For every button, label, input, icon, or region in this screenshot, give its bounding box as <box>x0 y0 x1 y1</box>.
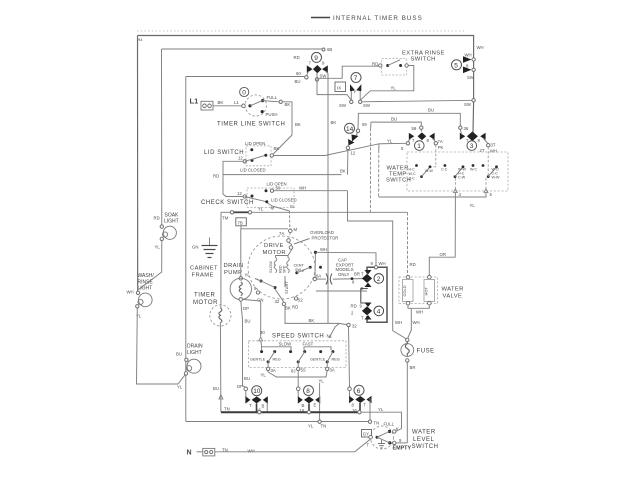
svg-text:HOT: HOT <box>424 287 429 296</box>
wire: outer frame top (WH buss) <box>138 36 474 60</box>
wire: left column down from wash light and across bottom <box>137 308 187 384</box>
wire BK long vertical from contact 9 to speed switch <box>327 74 329 324</box>
svg-text:RINSE: RINSE <box>138 279 154 285</box>
svg-text:L1: L1 <box>190 97 199 106</box>
svg-text:W-W: W-W <box>492 175 501 179</box>
temp group 1 <box>415 164 418 167</box>
svg-text:RD: RD <box>410 262 416 267</box>
svg-text:50: 50 <box>276 186 281 191</box>
svg-text:7: 7 <box>354 75 358 82</box>
svg-text:BR: BR <box>354 272 360 277</box>
svg-text:SWITCH: SWITCH <box>412 444 439 450</box>
svg-text:3: 3 <box>470 143 474 150</box>
wire speed sw outer contacts U link <box>268 371 327 377</box>
svg-text:WH: WH <box>477 45 484 50</box>
svg-text:Y: Y <box>353 90 356 95</box>
svg-text:BU: BU <box>428 108 434 113</box>
wire start winding down to speed switch bk line <box>285 306 347 325</box>
wire right vertical WH/SW <box>473 61 475 68</box>
svg-text:YL: YL <box>155 245 161 250</box>
svg-text:YL: YL <box>319 379 325 384</box>
svg-text:TN: TN <box>374 421 380 426</box>
wire OR from temp contact 4 to hot valve <box>429 193 455 276</box>
svg-text:LIGHT: LIGHT <box>138 286 153 292</box>
wire RD: valve feed vertical and jog <box>370 122 372 128</box>
svg-text:GN: GN <box>192 245 198 250</box>
svg-text:W-W: W-W <box>425 169 434 173</box>
timer contact 5 <box>452 45 484 80</box>
svg-text:LIGHT: LIGHT <box>187 350 202 356</box>
buss line TN <box>221 411 359 413</box>
svg-text:3A: 3A <box>271 368 276 373</box>
svg-text:WASH/: WASH/ <box>138 273 155 279</box>
svg-text:BU: BU <box>213 386 219 391</box>
svg-text:59: 59 <box>362 122 367 127</box>
drive motor <box>248 230 338 311</box>
svg-text:WH: WH <box>320 247 327 252</box>
svg-text:BK: BK <box>285 306 291 311</box>
svg-text:FRAME: FRAME <box>192 273 214 279</box>
svg-text:YL: YL <box>258 207 264 212</box>
wire fuse down to water level switch <box>406 362 408 443</box>
svg-text:59: 59 <box>412 126 417 131</box>
svg-text:WATER: WATER <box>442 287 464 293</box>
fuse <box>401 338 435 370</box>
wire contact9 to extra rinse switch <box>317 66 379 81</box>
svg-text:7A: 7A <box>279 231 284 236</box>
motor switch box with contacts 2 and 4 <box>351 261 388 322</box>
node: YL junction on lower buss <box>318 420 321 423</box>
svg-text:LIGHT: LIGHT <box>164 219 179 225</box>
svg-text:36: 36 <box>464 126 469 131</box>
svg-text:TM: TM <box>222 216 229 221</box>
svg-text:RD: RD <box>292 305 298 310</box>
wire pump down to contact 10 <box>241 301 246 387</box>
svg-text:PK: PK <box>438 145 444 150</box>
svg-text:FAST: FAST <box>303 342 314 347</box>
svg-text:SW: SW <box>363 103 371 108</box>
svg-text:REG: REG <box>273 357 281 361</box>
svg-text:SWITCH: SWITCH <box>386 178 411 184</box>
svg-text:CABINET: CABINET <box>190 266 218 272</box>
wire: 7B to motor M <box>241 226 288 229</box>
svg-text:WH: WH <box>299 186 306 191</box>
soak light <box>139 213 179 290</box>
svg-text:32: 32 <box>275 299 280 304</box>
wire SW line to right vertical <box>362 100 474 102</box>
svg-text:FULL: FULL <box>267 95 278 100</box>
svg-text:12: 12 <box>238 156 243 161</box>
wire from motor right to switch box <box>316 290 367 292</box>
svg-text:DRIVE: DRIVE <box>264 243 284 249</box>
svg-text:3T: 3T <box>491 143 496 148</box>
svg-text:SW: SW <box>464 102 472 107</box>
svg-text:GENTLE: GENTLE <box>250 357 266 361</box>
svg-text:ONLY: ONLY <box>338 272 350 277</box>
svg-text:YL: YL <box>308 424 314 429</box>
svg-text:BK: BK <box>331 120 337 125</box>
N line <box>187 439 371 457</box>
svg-text:7B: 7B <box>238 220 243 225</box>
svg-text:2: 2 <box>377 276 381 283</box>
wire YL from extra rinse down and left to SW junction <box>360 66 414 101</box>
legend: internal timer buss <box>311 15 423 22</box>
svg-text:RD: RD <box>372 62 378 67</box>
node 6B <box>322 48 325 51</box>
svg-text:7A: 7A <box>438 139 443 144</box>
svg-text:SPD: SPD <box>283 265 287 273</box>
svg-text:SWITCH: SWITCH <box>411 57 436 63</box>
timer contact 7 with IX box <box>335 73 371 109</box>
node: buss junction at contact 8 <box>307 411 310 414</box>
svg-text:WH: WH <box>395 320 402 325</box>
wire: inner line y49 <box>162 48 323 50</box>
svg-text:WH: WH <box>465 53 472 58</box>
svg-text:YL: YL <box>290 204 296 209</box>
contact 2 <box>365 270 372 275</box>
svg-text:CHECK SWITCH: CHECK SWITCH <box>201 200 254 206</box>
svg-text:C-C: C-C <box>409 177 416 181</box>
svg-text:LID CLOSED: LID CLOSED <box>240 168 266 173</box>
svg-text:B: B <box>361 286 364 291</box>
temp group 2 <box>444 164 447 167</box>
wire WH from check switch right across to fuse drop <box>274 190 348 192</box>
svg-text:GENTLE: GENTLE <box>310 357 326 361</box>
wire contact3 right down into temp switch <box>487 147 489 177</box>
wire down to contact 3 diamond <box>472 102 475 133</box>
svg-text:8: 8 <box>306 388 310 395</box>
water level switch <box>362 422 439 452</box>
svg-text:OR: OR <box>440 252 446 257</box>
svg-text:PUSH: PUSH <box>266 112 278 117</box>
svg-text:5: 5 <box>454 62 458 69</box>
timer contact 10 <box>244 386 268 413</box>
wire WH from check switch down and to fuse <box>348 191 408 340</box>
svg-text:OVERLOAD: OVERLOAD <box>310 230 334 235</box>
timer line switch <box>217 87 301 127</box>
svg-text:SW: SW <box>339 103 347 108</box>
svg-text:REG: REG <box>332 357 340 361</box>
svg-text:W-C: W-C <box>409 172 417 176</box>
svg-text:6: 6 <box>357 388 361 395</box>
svg-text:SW: SW <box>320 74 328 79</box>
temp group 3 <box>482 164 485 167</box>
buss line 2 <box>186 421 370 423</box>
svg-text:2T: 2T <box>480 148 485 153</box>
svg-text:LID CLOSED: LID CLOSED <box>271 198 297 203</box>
svg-text:10: 10 <box>253 388 261 395</box>
timer contact 3 <box>459 126 497 154</box>
svg-text:MOTOR: MOTOR <box>193 300 218 306</box>
wire WH valve to fuse <box>408 308 412 338</box>
timer motor <box>193 293 231 327</box>
wire BU lower: to contact 1 <box>371 122 421 126</box>
svg-text:RD: RD <box>351 304 357 309</box>
svg-text:WH: WH <box>127 290 134 295</box>
svg-text:EMPTY: EMPTY <box>393 446 412 452</box>
wire contact9 diamond leg to SW junction <box>317 81 351 100</box>
wire N1 blade <box>329 324 339 339</box>
node: TN junction on lower buss <box>368 420 371 423</box>
wire: left frame drop to wash light <box>137 36 139 293</box>
wire timer motor down to buss <box>219 323 222 412</box>
wire: line y76 to contact of timer 9 <box>186 76 305 78</box>
wire contact1 right down into temp switch <box>430 145 436 167</box>
wire: TM buss line y212 <box>221 211 230 213</box>
wire WH from motor to contact2 box <box>314 251 317 254</box>
node M <box>289 229 293 233</box>
svg-text:YL: YL <box>470 203 476 208</box>
svg-text:WH: WH <box>413 320 420 325</box>
timer contact 6 <box>348 385 372 421</box>
svg-text:C-W: C-W <box>458 175 466 179</box>
svg-text:BR: BR <box>410 365 416 370</box>
page border (dotted top) <box>137 30 466 32</box>
svg-text:BU: BU <box>176 352 182 357</box>
svg-text:B: B <box>262 404 265 409</box>
svg-text:SPEED SWITCH: SPEED SWITCH <box>272 333 324 339</box>
svg-text:TIMER LINE SWITCH: TIMER LINE SWITCH <box>217 122 285 128</box>
svg-text:BK: BK <box>295 122 301 127</box>
svg-text:YL: YL <box>177 385 183 390</box>
timer contact 14 <box>345 122 368 156</box>
motor bottom terminals <box>256 291 259 294</box>
svg-text:M: M <box>294 227 298 232</box>
svg-text:PUMP: PUMP <box>224 270 242 276</box>
svg-text:BU: BU <box>391 117 397 122</box>
svg-text:T: T <box>361 316 364 321</box>
svg-text:DP: DP <box>237 384 243 389</box>
svg-text:DRAIN: DRAIN <box>187 344 203 350</box>
svg-text:VALVE: VALVE <box>443 294 463 300</box>
svg-text:COLD: COLD <box>402 285 407 296</box>
wire BK from timer line switch down to lid switch <box>272 102 292 156</box>
svg-text:12: 12 <box>237 191 242 196</box>
lid switch <box>204 141 279 178</box>
svg-text:MOTOR: MOTOR <box>263 250 286 256</box>
svg-text:60: 60 <box>296 71 301 76</box>
wire timer motor feed from TM line <box>220 212 222 308</box>
svg-text:DP: DP <box>243 306 249 311</box>
svg-text:BK: BK <box>218 100 224 105</box>
svg-text:30: 30 <box>260 330 265 335</box>
wire: lid switch right to YL corner <box>274 144 380 156</box>
svg-text:0: 0 <box>242 89 246 96</box>
water valve <box>399 275 464 314</box>
svg-text:32: 32 <box>352 324 357 329</box>
wire empty contact to fuse line <box>396 442 407 444</box>
svg-text:INTERNAL TIMER BUSS: INTERNAL TIMER BUSS <box>333 15 423 22</box>
speed switch <box>248 330 346 384</box>
svg-text:BK: BK <box>309 318 315 323</box>
svg-text:PROTECTOR: PROTECTOR <box>312 236 339 241</box>
svg-text:YL: YL <box>391 86 397 91</box>
svg-text:RD: RD <box>213 174 219 179</box>
svg-text:EXTRA RINSE: EXTRA RINSE <box>402 51 445 57</box>
svg-text:SLOW: SLOW <box>268 261 273 273</box>
svg-text:8A: 8A <box>316 274 321 279</box>
node: buss junction at contact 6 <box>358 411 361 414</box>
wire: inner frame left <box>185 77 187 422</box>
svg-text:T: T <box>361 272 364 277</box>
svg-text:H-C: H-C <box>409 168 416 172</box>
svg-text:T: T <box>249 403 252 408</box>
svg-text:9: 9 <box>314 55 318 62</box>
wire YL contact1 left down to water temp bottom <box>379 143 406 150</box>
svg-text:1: 1 <box>417 143 421 150</box>
wire: rd line y174.6 <box>223 174 342 176</box>
svg-text:WH: WH <box>248 449 255 454</box>
svg-text:WATER: WATER <box>412 430 436 436</box>
wash/rinse light <box>127 273 155 319</box>
node: buss junction at contact 10 <box>258 411 261 414</box>
svg-text:94: 94 <box>138 37 143 42</box>
svg-text:8J: 8J <box>291 368 296 373</box>
wire down to contact 6 <box>349 327 350 388</box>
svg-text:BK: BK <box>340 169 346 174</box>
timer contact 8 <box>296 383 320 422</box>
wire pump to speed switch 30 <box>243 299 261 336</box>
wire check switch M to motor <box>268 203 290 211</box>
svg-text:BU: BU <box>245 319 251 324</box>
svg-text:YL: YL <box>245 273 251 278</box>
drain pump <box>224 263 252 311</box>
svg-text:BK: BK <box>274 146 280 151</box>
svg-text:BU: BU <box>244 376 250 381</box>
wire: soak light feed <box>161 49 163 227</box>
svg-text:WH: WH <box>490 149 497 154</box>
svg-text:FUSE: FUSE <box>417 349 435 355</box>
check switch <box>201 182 297 211</box>
svg-text:C-C: C-C <box>441 168 448 172</box>
node TM / 7B <box>222 207 264 226</box>
water temp switch <box>386 152 508 197</box>
capacitor <box>313 258 363 285</box>
svg-text:E: E <box>314 403 317 408</box>
svg-text:S2: S2 <box>298 298 304 303</box>
svg-text:RD: RD <box>294 55 300 60</box>
svg-text:3A: 3A <box>330 368 335 373</box>
svg-text:YL: YL <box>378 407 384 412</box>
svg-text:YL: YL <box>387 139 393 144</box>
svg-text:2: 2 <box>302 269 304 273</box>
svg-text:TIMER: TIMER <box>194 293 216 299</box>
wire pump feed <box>240 229 242 277</box>
contact 4 <box>365 303 372 308</box>
drain light <box>176 344 203 390</box>
svg-text:BU: BU <box>295 79 301 84</box>
svg-text:12: 12 <box>351 151 356 156</box>
svg-text:WH: WH <box>416 310 423 315</box>
svg-text:W-C: W-C <box>470 168 478 172</box>
svg-text:YL: YL <box>261 372 267 377</box>
svg-text:5S: 5S <box>301 367 306 372</box>
svg-text:L1: L1 <box>234 100 239 105</box>
ground inside <box>381 440 383 443</box>
svg-text:TN: TN <box>321 424 327 429</box>
svg-text:SLOW: SLOW <box>279 342 293 347</box>
L1 terminal <box>190 97 246 111</box>
timer contact 9 <box>294 52 329 81</box>
svg-text:FULL: FULL <box>384 422 395 427</box>
temp bottom contacts 4 and 5 <box>454 178 456 189</box>
svg-text:14: 14 <box>346 126 354 133</box>
wire BU upper: contact14 to contact3 <box>358 113 460 129</box>
svg-text:TN: TN <box>224 407 230 412</box>
wire speed sw middle to contact 8 <box>297 371 299 388</box>
extra rinse switch <box>372 51 445 76</box>
svg-text:K: K <box>396 427 399 432</box>
wire 12 from contact 14 down to rd line <box>347 150 349 175</box>
svg-text:LEVEL: LEVEL <box>413 437 435 443</box>
svg-text:WH: WH <box>379 261 386 266</box>
svg-text:BK: BK <box>285 102 291 107</box>
timer contact 1 <box>401 126 444 151</box>
svg-text:IX: IX <box>337 86 341 91</box>
wire YL from buss to water level <box>361 412 402 431</box>
node 60/BU <box>305 76 308 79</box>
svg-text:RD: RD <box>154 216 160 221</box>
svg-text:T: T <box>364 403 367 408</box>
svg-text:T: T <box>367 443 370 448</box>
svg-text:6B: 6B <box>327 47 332 52</box>
svg-text:GY: GY <box>363 431 369 436</box>
cabinet frame ground <box>190 238 218 279</box>
node 30 <box>347 323 350 326</box>
wire: lid sw to check sw and rd line right <box>223 161 243 196</box>
svg-text:4: 4 <box>377 308 381 315</box>
svg-text:N: N <box>187 450 192 457</box>
